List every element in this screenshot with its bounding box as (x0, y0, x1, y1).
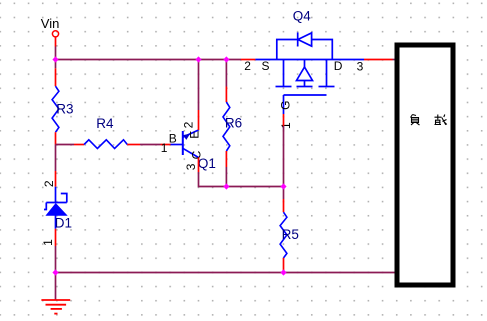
svg-text:R5: R5 (282, 227, 299, 242)
load box (397, 45, 453, 285)
svg-text:3: 3 (357, 59, 364, 73)
wire left column upper (to R3) (55, 60, 57, 69)
svg-text:Q4: Q4 (293, 8, 312, 23)
wire Q4 gate down (283, 114, 285, 126)
MOSFET Q4 (255, 32, 364, 114)
resistor R6 (225, 60, 227, 87)
wire Q1 collector down and right (198, 158, 200, 173)
transistor Q1 (171, 130, 199, 158)
svg-text:R4: R4 (96, 116, 114, 131)
ground (55, 273, 57, 300)
load text 载 (435, 115, 447, 125)
svg-text:D: D (334, 59, 343, 73)
resistor R3 (52, 86, 59, 132)
resistor R5 (283, 187, 285, 200)
load text 负 (411, 115, 420, 126)
svg-text:S: S (262, 59, 270, 73)
wire top rail (56, 59, 242, 61)
svg-text:E: E (188, 131, 202, 139)
svg-text:D1: D1 (55, 216, 72, 231)
svg-text:2: 2 (244, 59, 251, 73)
wire Q1 emitter to rail (198, 110, 200, 130)
wire bottom rail (56, 272, 395, 274)
svg-text:2: 2 (42, 180, 56, 187)
node Vin terminal circle (52, 31, 58, 37)
svg-text:2: 2 (181, 121, 195, 128)
resistor R4 (84, 140, 127, 149)
svg-text:R3: R3 (56, 101, 73, 116)
svg-text:3: 3 (184, 163, 198, 170)
svg-text:1: 1 (161, 141, 168, 155)
wire base line (56, 144, 75, 146)
svg-text:Q1: Q1 (198, 156, 216, 171)
svg-text:Vin: Vin (41, 16, 60, 31)
diode D1 (zener) (55, 145, 57, 172)
svg-text:1: 1 (279, 122, 293, 129)
wire Vin stub (55, 37, 57, 47)
svg-text:B: B (169, 131, 177, 145)
svg-text:G: G (278, 101, 292, 110)
svg-text:1: 1 (41, 239, 55, 246)
svg-text:R6: R6 (225, 116, 242, 131)
